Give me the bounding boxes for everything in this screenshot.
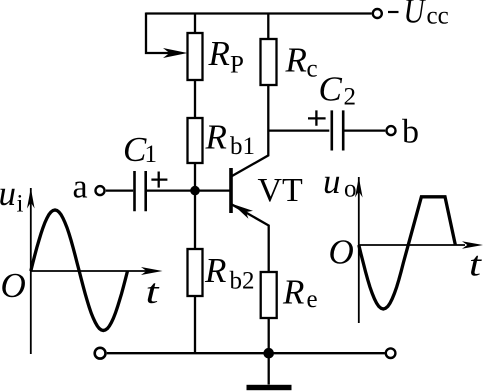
svg-text:c: c <box>307 56 318 83</box>
svg-text:R: R <box>282 272 304 311</box>
svg-text:VT: VT <box>258 172 304 209</box>
svg-text:b: b <box>402 114 419 151</box>
svg-text:b2: b2 <box>230 268 255 295</box>
svg-text:U: U <box>404 0 427 30</box>
svg-text:b1: b1 <box>230 133 255 160</box>
svg-text:P: P <box>230 52 244 79</box>
svg-text:cc: cc <box>427 3 449 30</box>
svg-text:t: t <box>469 245 483 284</box>
svg-text:R: R <box>204 251 226 290</box>
svg-text:a: a <box>73 169 88 206</box>
svg-text:e: e <box>307 286 318 313</box>
svg-text:2: 2 <box>344 84 357 111</box>
svg-text:C: C <box>123 130 147 169</box>
svg-text:i: i <box>17 191 24 218</box>
svg-text:1: 1 <box>145 141 158 168</box>
svg-text:R: R <box>205 118 227 157</box>
svg-text:R: R <box>285 41 307 80</box>
svg-text:R: R <box>208 34 230 73</box>
svg-text:t: t <box>146 272 161 311</box>
svg-text:O: O <box>1 266 26 305</box>
svg-text:o: o <box>344 176 357 203</box>
svg-text:u: u <box>323 162 341 201</box>
svg-text:C: C <box>319 69 343 108</box>
svg-text:u: u <box>0 174 16 213</box>
svg-text:O: O <box>329 233 354 272</box>
